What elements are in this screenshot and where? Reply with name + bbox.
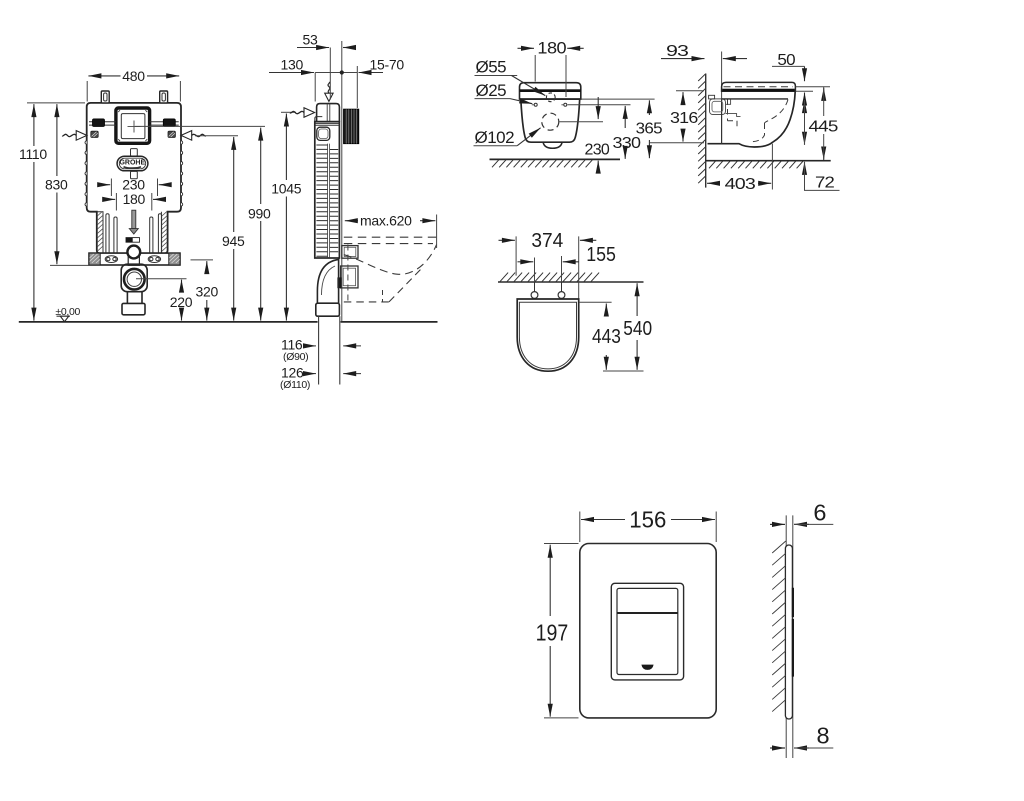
- drain pipe: [127, 291, 142, 303]
- mounting tab left: [101, 91, 109, 103]
- svg-text:72: 72: [815, 175, 835, 192]
- svg-text:(Ø90): (Ø90): [283, 351, 308, 363]
- holes Ø25: [534, 103, 537, 106]
- dim 830: [50, 264, 96, 266]
- dim 116 (Ø90): [307, 345, 317, 347]
- dim 320: [191, 259, 214, 261]
- dim line inner: [804, 100, 806, 110]
- svg-text:15-70: 15-70: [370, 57, 405, 73]
- svg-text:max.620: max.620: [360, 213, 412, 229]
- svg-text:374: 374: [531, 230, 563, 252]
- svg-text:130: 130: [281, 57, 304, 73]
- cistern body side: [315, 122, 340, 258]
- support bracket bar: [89, 253, 180, 265]
- extension lines rear: [582, 98, 655, 100]
- wall hatch plan: [500, 273, 599, 282]
- seat extension lines: [796, 86, 830, 88]
- dim 330 rear: [624, 106, 626, 128]
- dim 6: [770, 523, 785, 525]
- plate side wall lines: [786, 515, 793, 758]
- node dot: [340, 70, 344, 74]
- lower rods: [106, 214, 109, 254]
- svg-text:116: 116: [281, 336, 303, 352]
- mounting hardware: [709, 95, 715, 99]
- dim 93: [721, 52, 723, 102]
- upper fixing bracket: [342, 246, 358, 259]
- dim 15-70: [356, 66, 358, 108]
- plate side body: [785, 545, 792, 719]
- svg-text:230: 230: [585, 142, 610, 159]
- svg-text:830: 830: [45, 176, 68, 192]
- cistern side view top cap: [317, 104, 340, 122]
- dim 1045: [281, 111, 296, 113]
- water supply connection: [127, 246, 140, 259]
- wall line side: [705, 74, 707, 188]
- rim line: [722, 98, 788, 100]
- WC plan outline: [517, 299, 579, 371]
- dim 365 rear: [648, 100, 650, 115]
- dim 1110: [27, 102, 85, 104]
- svg-text:480: 480: [122, 68, 145, 84]
- svg-text:320: 320: [196, 284, 219, 300]
- button frame: [611, 583, 683, 680]
- wall hatch: [698, 74, 706, 184]
- flush plate front: [580, 544, 716, 718]
- flush window side: [317, 127, 330, 140]
- dim 443: [579, 301, 612, 303]
- pipe below floor: [319, 316, 340, 384]
- dim 540: [603, 370, 644, 372]
- dim 230 rear: [597, 97, 599, 119]
- dashed WC outline: [344, 236, 437, 238]
- svg-text:155: 155: [586, 244, 616, 266]
- dim 316: [676, 90, 704, 92]
- dim 990: [135, 125, 265, 127]
- svg-text:990: 990: [248, 205, 271, 221]
- ladder rungs: [316, 145, 338, 256]
- svg-text:93: 93: [666, 43, 689, 60]
- hole Ø55: [546, 93, 555, 102]
- air vent arrow: [325, 93, 333, 101]
- ground line: [19, 321, 438, 323]
- svg-text:365: 365: [636, 120, 663, 137]
- frame side rails: [97, 212, 162, 254]
- right rod and nut: [150, 122, 179, 125]
- plate wall hatch: [772, 541, 786, 712]
- fixing bolts plan: [531, 292, 538, 299]
- wall fixing arrow right: [181, 131, 192, 141]
- dim max.620: [436, 215, 438, 249]
- lower fixing bracket: [341, 266, 358, 288]
- wall bolt arrow side: [304, 108, 315, 118]
- anchor plate right: [168, 131, 175, 137]
- svg-text:230: 230: [122, 177, 145, 193]
- WC rear view seat lid: [520, 83, 581, 99]
- svg-text:(Ø110): (Ø110): [280, 379, 310, 391]
- drain elbow side: [317, 258, 338, 303]
- dim 156: [580, 512, 716, 543]
- svg-text:540: 540: [623, 318, 652, 340]
- svg-text:403: 403: [725, 176, 756, 193]
- window center mark: [128, 121, 141, 133]
- dim 72: [804, 162, 806, 172]
- dim 180 (rod spacing): [116, 193, 151, 211]
- dim 126 (Ø110): [307, 373, 317, 375]
- GROHE logo: [131, 149, 138, 156]
- svg-text:180: 180: [537, 39, 566, 58]
- svg-text:Ø55: Ø55: [476, 58, 507, 77]
- frame edge ribs: [85, 141, 183, 206]
- seat lid side: [722, 82, 796, 91]
- dim 230 (window width): [111, 179, 157, 197]
- wall face line: [341, 41, 343, 244]
- wall anchor block: [344, 109, 359, 143]
- dim 155: [535, 256, 562, 290]
- svg-text:GROHE: GROHE: [119, 160, 145, 167]
- anchor plate left: [91, 131, 98, 137]
- svg-text:443: 443: [592, 326, 621, 348]
- WC rear body: [521, 99, 580, 142]
- dim 180 rear: [535, 55, 566, 97]
- dim 403: [771, 144, 773, 190]
- svg-text:6: 6: [813, 499, 826, 525]
- svg-text:220: 220: [170, 294, 193, 310]
- drain elbow: [121, 264, 147, 292]
- hole Ø102: [542, 113, 559, 130]
- dim 197: [544, 544, 579, 718]
- wall line plan: [498, 281, 644, 283]
- svg-text:156: 156: [629, 507, 666, 533]
- svg-text:Ø102: Ø102: [475, 128, 515, 147]
- hidden trap lines: [765, 100, 789, 124]
- svg-text:180: 180: [123, 191, 146, 207]
- mounting tab right: [160, 91, 168, 103]
- dim 445: [823, 88, 825, 98]
- svg-text:197: 197: [536, 620, 569, 646]
- cistern frame front view: [87, 103, 181, 253]
- svg-text:1045: 1045: [271, 181, 301, 197]
- label plate: [126, 238, 140, 243]
- svg-text:Ø25: Ø25: [476, 81, 507, 100]
- svg-text:945: 945: [222, 233, 245, 249]
- svg-text:316: 316: [670, 110, 698, 127]
- dim 480: [87, 81, 180, 102]
- dim 130: [315, 72, 357, 74]
- dim 53: [329, 48, 331, 100]
- left rod and nut: [89, 122, 116, 125]
- floor line rear: [490, 158, 621, 160]
- dim 374: [516, 236, 579, 299]
- plate logo recess: [641, 665, 653, 670]
- drain bump: [543, 142, 562, 148]
- dim 945: [195, 135, 238, 137]
- svg-text:330: 330: [613, 135, 642, 152]
- svg-text:1110: 1110: [19, 146, 47, 162]
- inspection window: [116, 108, 150, 143]
- wall fixing arrow left: [76, 131, 87, 141]
- dim 220: [136, 278, 187, 280]
- hidden line: [347, 245, 349, 302]
- dim 8: [770, 747, 785, 749]
- svg-text:8: 8: [817, 722, 830, 748]
- floor line side: [706, 160, 831, 162]
- svg-text:445: 445: [809, 119, 839, 136]
- flush pipe arrow: [132, 210, 136, 228]
- svg-text:53: 53: [303, 32, 318, 48]
- bowl profile: [708, 92, 796, 147]
